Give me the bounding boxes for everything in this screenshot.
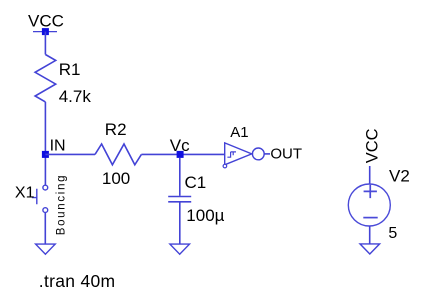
A1 output bubble <box>252 148 264 160</box>
svg-text:.tran 40m: .tran 40m <box>39 271 116 291</box>
svg-text:VCC: VCC <box>28 11 64 30</box>
svg-text:R2: R2 <box>105 120 127 139</box>
power flag VCC (top left, net VCC) <box>28 11 64 35</box>
ground (C1) <box>170 244 190 254</box>
svg-text:V2: V2 <box>389 167 410 186</box>
svg-text:X1: X1 <box>15 184 35 201</box>
svg-text:Bouncing: Bouncing <box>55 174 67 236</box>
switch X1 bottom contact <box>43 208 48 213</box>
svg-text:Vc: Vc <box>170 136 190 155</box>
wire IN node to R2 <box>45 153 95 155</box>
wire Vc to C1 <box>179 158 181 196</box>
resistor R1 <box>35 55 56 102</box>
svg-text:C1: C1 <box>185 173 207 192</box>
svg-text:IN: IN <box>50 137 66 154</box>
wire VCC flag to R1 <box>44 32 46 55</box>
svg-text:OUT: OUT <box>270 146 302 163</box>
switch X1 actuator <box>32 189 37 204</box>
svg-text:5: 5 <box>388 225 397 242</box>
A1 hysteresis symbol <box>227 152 236 157</box>
svg-text:4.7k: 4.7k <box>59 87 92 106</box>
wire C1 to ground <box>179 203 181 245</box>
ground (V2) <box>360 244 380 254</box>
svg-text:R1: R1 <box>59 60 81 79</box>
wire R1 to IN node and switch X1 <box>44 102 46 185</box>
wire V2 to ground <box>369 226 371 244</box>
svg-text:100µ: 100µ <box>186 206 224 225</box>
wire A1 output to OUT <box>264 153 270 155</box>
svg-text:100: 100 <box>102 169 130 188</box>
node IN junction <box>42 151 49 158</box>
capacitor C1 <box>168 197 191 202</box>
ground (X1) <box>36 244 56 254</box>
resistor R2 <box>95 144 141 165</box>
schmitt buffer A1 body <box>225 143 252 165</box>
voltage source V2 <box>348 184 390 226</box>
wire X1 to ground <box>44 213 46 244</box>
node Vc junction <box>177 151 184 158</box>
svg-text:VCC: VCC <box>363 128 381 163</box>
wire VCC flag to V2 <box>369 166 371 184</box>
svg-text:A1: A1 <box>230 124 248 141</box>
wire R2 to node Vc and A1 input <box>141 153 224 155</box>
A1 unconnected pin <box>223 164 227 168</box>
switch X1 top contact <box>43 185 48 190</box>
